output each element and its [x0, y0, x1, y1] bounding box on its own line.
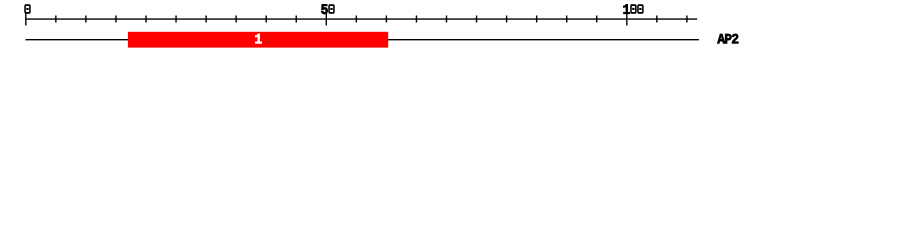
ruler minor tick 30: [205, 16, 207, 23]
ruler minor tick 70: [446, 16, 448, 23]
ruler minor tick 80: [506, 16, 508, 23]
ruler minor tick 105: [656, 16, 658, 23]
ruler minor tick 110: [686, 16, 688, 23]
ruler label 50: [321, 4, 327, 14]
ruler minor tick 40: [265, 16, 267, 23]
ruler label 0: [24, 4, 30, 14]
ruler minor tick 65: [415, 16, 417, 23]
ruler minor tick 55: [355, 16, 357, 23]
domain bar 1 (red): [128, 32, 388, 48]
ruler minor tick 5: [55, 16, 57, 23]
ruler minor tick 35: [235, 16, 237, 23]
ruler axis line: [26, 18, 698, 20]
ruler minor tick 15: [115, 16, 117, 23]
ruler minor tick 45: [295, 16, 297, 23]
ruler major tick 100: [626, 13, 628, 26]
ruler minor tick 90: [566, 16, 568, 23]
ruler minor tick 20: [145, 16, 147, 23]
ruler major tick 0: [25, 13, 27, 26]
domain bar number label 1: [255, 34, 261, 43]
track name label AP2: [717, 34, 725, 43]
ruler major tick 50: [325, 13, 327, 26]
ruler minor tick 10: [85, 16, 87, 23]
ruler label 100: [623, 4, 629, 13]
ruler minor tick 25: [175, 16, 177, 23]
ruler minor tick 75: [476, 16, 478, 23]
ruler minor tick 85: [536, 16, 538, 23]
protein backbone line: [26, 39, 699, 41]
ruler minor tick 60: [385, 16, 387, 23]
ruler minor tick 95: [596, 16, 598, 23]
